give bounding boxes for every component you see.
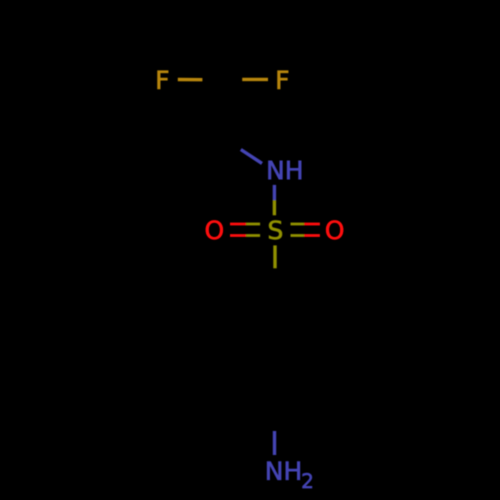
double bond S1=O2 lower line sulfur half: [291, 234, 305, 237]
atom label F2 (right fluorine): [278, 71, 288, 89]
double bond S1=O1 lower line sulfur half: [246, 234, 260, 237]
double bond S1=O1 upper line oxygen half: [230, 223, 246, 226]
atom label N1 (sulfonamide NH): [269, 161, 302, 179]
bond C7-C8 carbon backbone (black, invisible on black background): [220, 80, 223, 136]
atom label N2 (aniline NH2): [267, 462, 300, 480]
atom label N2 subscript 2: [303, 473, 312, 488]
atom label F1 (left fluorine): [158, 71, 168, 89]
double bond S1=O1 lower line oxygen half: [230, 234, 246, 237]
benzene ring C1-C2-C3-C4-C5-C6 (carbon, invisible black on black): [225, 292, 325, 407]
bond C4-N2 nitrogen-colored half: [273, 431, 276, 455]
bond N1-S1 sulfur-colored half: [273, 200, 276, 215]
atom label O2 (right oxygen): [326, 220, 343, 239]
bond S1-C1 sulfur-colored half: [273, 245, 276, 268]
double bond S1=O1 upper line sulfur half: [246, 223, 260, 226]
double bond S1=O2 upper line sulfur half: [291, 223, 305, 226]
bond N1-S1 nitrogen-colored half: [273, 185, 276, 200]
double bond S1=O2 lower line oxygen half: [304, 234, 320, 237]
double bond S1=O2 upper line oxygen half: [304, 223, 320, 226]
bond C8-N1 nitrogen-colored half: [241, 150, 262, 164]
atom label S1 (sulfonyl sulfur): [269, 220, 282, 239]
bond C7-F2 fluorine-colored half: [242, 78, 268, 81]
bond F1-C7 fluorine-colored half: [178, 78, 203, 82]
atom label O1 (left oxygen): [206, 220, 223, 239]
